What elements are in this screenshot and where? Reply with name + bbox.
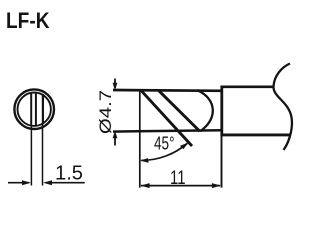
1.5 dimension left arrow	[8, 182, 29, 184]
45 arc right arrowhead	[180, 142, 189, 149]
extension line right (1.5 dim)	[42, 124, 44, 185]
11 dimension right arrowhead	[212, 183, 221, 188]
side view: shaft top outline	[221, 86, 274, 89]
svg-text:45°: 45°	[154, 134, 175, 154]
11 dimension left arrowhead	[141, 183, 150, 188]
knife face second diagonal	[158, 90, 200, 131]
45 degree angle arc with arrows	[141, 143, 187, 160]
dia 4.7 bottom arrow	[114, 134, 116, 146]
45 arc left arrowhead	[140, 158, 149, 163]
extension line left (11 dim)	[139, 90, 141, 187]
knife slab left edge line in circle	[30, 93, 32, 126]
end view: inner circle	[18, 93, 51, 126]
knife slab middle edge line in circle	[35, 93, 37, 126]
1.5 dimension right arrow	[45, 182, 84, 184]
11 dimension line	[141, 185, 220, 187]
break line S-curve at right	[273, 64, 291, 151]
side view: shaft bottom outline	[221, 133, 290, 136]
dia 4.7 top arrow	[114, 79, 116, 89]
extension line right (11 dim)	[221, 136, 223, 188]
svg-text:LF-K: LF-K	[6, 8, 50, 33]
knife edge diagonal (main)	[141, 90, 192, 146]
side view: shaft left vertical edge	[220, 86, 223, 137]
knife slab right edge line in circle	[42, 94, 44, 124]
elliptical cut-face arc	[198, 90, 213, 131]
svg-text:Ø4.7: Ø4.7	[96, 90, 115, 134]
side view: tip bottom outline	[113, 130, 222, 131]
side view: tip top outline	[113, 89, 222, 93]
extension line left (1.5 dim)	[30, 126, 32, 186]
svg-text:11: 11	[170, 168, 186, 189]
end view: outer circle	[14, 89, 54, 129]
svg-text:1.5: 1.5	[55, 163, 83, 185]
